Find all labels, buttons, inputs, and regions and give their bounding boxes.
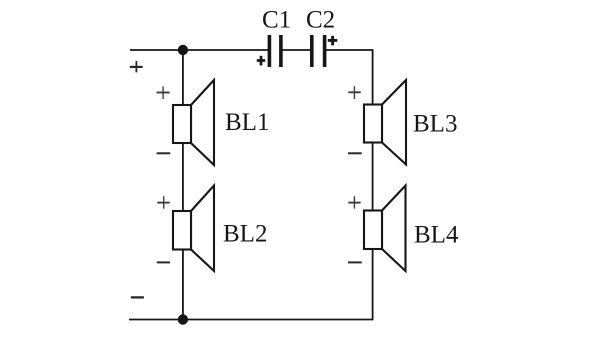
svg-text:BL3: BL3 [413, 111, 457, 138]
wire: segment between C1 and C2 [281, 49, 312, 51]
wire: C2 to top-right corner and right vertical rail [325, 50, 373, 320]
loudspeaker BL3 [364, 80, 406, 165]
capacitor C1 [269, 35, 281, 67]
polarity - of BL1 [157, 152, 171, 154]
svg-text:BL1: BL1 [225, 109, 269, 136]
input terminal - sign (bottom left) [131, 296, 144, 298]
polarity + of BL3 [348, 86, 360, 99]
input terminal + sign (top left) [130, 61, 143, 73]
polarity + of C2 [328, 36, 338, 45]
svg-text:BL4: BL4 [414, 222, 459, 249]
wire: bottom rail (input - to right rail) [129, 319, 374, 321]
polarity + of BL4 [348, 196, 360, 208]
loudspeaker BL2 [173, 186, 214, 272]
polarity + of BL2 [157, 196, 170, 208]
svg-text:C2: C2 [306, 7, 335, 34]
wire: top rail left segment (input + to C1) [130, 49, 269, 51]
loudspeaker BL4 [364, 186, 406, 272]
polarity - of BL2 [157, 261, 170, 263]
capacitor C2 [312, 35, 325, 67]
polarity + of C1 [257, 56, 265, 66]
node: top-left junction dot [178, 45, 188, 55]
polarity + of BL1 [157, 86, 170, 99]
node: bottom-left junction dot [178, 314, 188, 324]
svg-text:BL2: BL2 [223, 221, 267, 248]
wire: left vertical rail [182, 50, 184, 320]
loudspeaker BL1 [173, 80, 214, 165]
polarity - of BL3 [348, 152, 362, 154]
polarity - of BL4 [348, 261, 362, 263]
svg-text:C1: C1 [262, 7, 291, 34]
